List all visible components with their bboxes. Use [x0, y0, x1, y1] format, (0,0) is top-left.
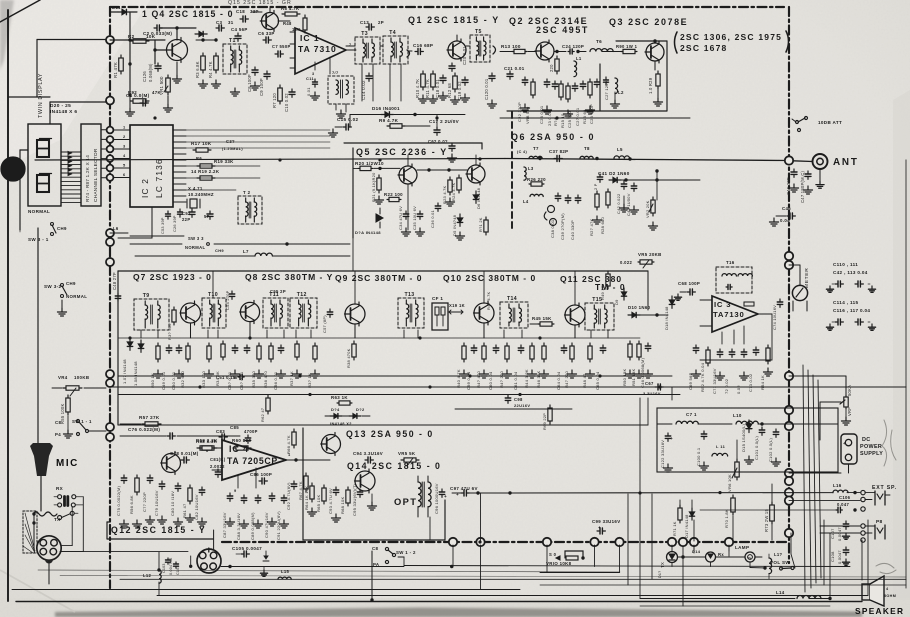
svg-text:C90 47U16V: C90 47U16V: [264, 512, 269, 538]
svg-text:C102 0.0(L): C102 0.0(L): [768, 437, 773, 462]
wire left border: [7, 10, 9, 601]
svg-text:Q13 2SA 950 - 0: Q13 2SA 950 - 0: [346, 429, 434, 439]
capacitor C98: [507, 395, 509, 398]
svg-text:C4 56P: C4 56P: [231, 27, 248, 32]
ground c105: [265, 551, 267, 556]
svg-text:R74 - R87 1.2K X 14: R74 - R87 1.2K X 14: [85, 155, 90, 202]
svg-text:R92: R92: [128, 90, 137, 95]
ground row under IF strip: [157, 370, 159, 374]
svg-text:C9 100P: C9 100P: [259, 78, 264, 96]
wire bottom run4: [157, 595, 868, 597]
wire q5 to strip: [352, 238, 354, 271]
capacitor C97: [461, 492, 464, 494]
svg-text:R21 (9.1K)R20: R21 (9.1K)R20: [371, 172, 376, 202]
svg-text:R13 100: R13 100: [501, 44, 521, 49]
svg-text:C13: C13: [360, 20, 369, 25]
wire socket up: [213, 530, 215, 549]
svg-text:C8: C8: [372, 546, 378, 551]
svg-text:C18 0.01: C18 0.01: [435, 79, 440, 98]
diode D10: [632, 312, 636, 317]
svg-text:EXT SP.: EXT SP.: [872, 485, 897, 491]
capacitor C68: [687, 291, 690, 293]
svg-text:R7 120: R7 120: [272, 93, 277, 108]
transistor Q15: [262, 13, 279, 30]
svg-text:2SC 495T: 2SC 495T: [536, 25, 589, 35]
wire right edge: [905, 160, 907, 588]
svg-text:R51 18K: R51 18K: [631, 368, 636, 386]
svg-text:3.3U16V: 3.3U16V: [643, 391, 661, 396]
svg-text:TWIN DISPLAY: TWIN DISPLAY: [38, 73, 44, 118]
node feed-through: [785, 469, 793, 477]
resistor X19: [449, 311, 463, 313]
svg-text:C53 39P: C53 39P: [161, 217, 165, 234]
svg-text:C120 0.01: C120 0.01: [484, 78, 489, 100]
wire right verticals: [803, 365, 805, 592]
svg-text:+: +: [444, 494, 447, 499]
wire q1 out: [466, 45, 470, 47]
wire bus1: [196, 39, 216, 41]
svg-text:R45 15K: R45 15K: [532, 316, 552, 321]
svg-text:R17 10K: R17 10K: [191, 141, 212, 146]
svg-text:R4 4.7K: R4 4.7K: [208, 61, 213, 78]
svg-text:C42 0.022: C42 0.022: [616, 194, 621, 214]
jack PA: [861, 524, 865, 528]
coil link T4: [407, 50, 410, 57]
svg-text:R10 4.7K: R10 4.7K: [415, 79, 420, 98]
node feed-through: [106, 423, 114, 431]
capacitor mic coupling: [63, 497, 66, 506]
ground row q2: [524, 104, 526, 108]
wire q3 col: [654, 41, 656, 43]
jack EXT SP: [861, 490, 865, 494]
svg-text:D10 1N60: D10 1N60: [628, 305, 651, 310]
svg-text:T6: T6: [596, 39, 602, 44]
transistor Q11: [565, 305, 585, 325]
wire socket right: [221, 566, 404, 568]
resistor R17b: [193, 149, 196, 151]
svg-text:72 0.02: 72 0.02: [724, 378, 729, 394]
svg-text:C24 120P: C24 120P: [562, 44, 584, 49]
svg-text:R23 4.7K: R23 4.7K: [442, 185, 447, 204]
node feed-through: [590, 538, 598, 546]
svg-text:R63 1K: R63 1K: [331, 395, 348, 400]
wire jack wires: [847, 492, 860, 494]
node feed-through: [785, 372, 793, 380]
svg-text:C37 82P: C37 82P: [549, 149, 568, 154]
svg-text:D?A IN4148: D?A IN4148: [355, 230, 381, 235]
channel selector box: [81, 124, 101, 206]
wire mid verticals: [452, 545, 454, 567]
svg-text:T4: T4: [389, 30, 396, 36]
ground g q3: [657, 89, 659, 98]
svg-text:C105 0.0047: C105 0.0047: [232, 546, 262, 551]
svg-text:R22 100: R22 100: [384, 192, 403, 197]
svg-text:T12: T12: [297, 292, 307, 298]
node feed-through: [690, 538, 698, 546]
svg-text:0.04: 0.04: [780, 218, 790, 223]
svg-text:R57 27K: R57 27K: [139, 415, 160, 420]
svg-text:C78 0.01(M): C78 0.01(M): [170, 451, 199, 456]
wire ic4 out: [296, 459, 330, 461]
svg-text:DC: DC: [862, 437, 871, 443]
wire bottom h extra: [640, 605, 830, 607]
svg-text:C89 0.068(M): C89 0.068(M): [250, 512, 255, 540]
svg-text:C77 220P: C77 220P: [142, 492, 147, 512]
svg-text:P8: P8: [876, 519, 883, 525]
wire agc bus5: [455, 408, 572, 410]
svg-text:R40 4.7K: R40 4.7K: [456, 369, 461, 388]
svg-text:C10 0.02: C10 0.02: [284, 93, 289, 112]
svg-text:R27 47K: R27 47K: [589, 218, 594, 236]
resistor R59b: [197, 447, 200, 449]
mic terminals: [58, 495, 62, 499]
svg-text:220: 220: [549, 64, 554, 72]
svg-text:POWER: POWER: [860, 444, 882, 450]
wire lamp down: [671, 563, 673, 567]
svg-text:Q10 2SC 380TM - 0: Q10 2SC 380TM - 0: [443, 273, 536, 283]
svg-text:TA 7310: TA 7310: [298, 44, 337, 54]
wire scan lines extra: [38, 570, 620, 572]
wire strip verticals: [647, 271, 649, 310]
svg-text:C126: C126: [142, 71, 147, 82]
svg-text:L10: L10: [733, 413, 742, 418]
svg-text:CH9: CH9: [215, 248, 224, 253]
svg-text:C98: C98: [514, 397, 523, 402]
svg-text:+: +: [670, 436, 673, 441]
transformer T4: [383, 36, 408, 64]
transformer T11: [263, 298, 288, 328]
svg-text:ANT: ANT: [833, 157, 859, 168]
svg-text:L1?: L1?: [774, 552, 783, 557]
transistor Q13: [322, 435, 341, 454]
pot VR5: [638, 261, 640, 263]
svg-text:C100 0.1: C100 0.1: [696, 447, 701, 466]
wire ic1 pins: [290, 31, 295, 33]
svg-text:RX: RX: [56, 486, 64, 491]
wire opt out: [452, 492, 462, 494]
svg-text:C18: C18: [236, 9, 245, 14]
node feed-through: [449, 538, 457, 546]
svg-text:D?2: D?2: [356, 407, 365, 412]
svg-text:R61 47: R61 47: [182, 503, 187, 518]
svg-text:C116 , 117 0.04: C116 , 117 0.04: [833, 308, 870, 313]
svg-text:C80 10 /16V: C80 10 /16V: [170, 491, 175, 516]
switch q6 sw: [548, 206, 555, 213]
wire sw12 left: [371, 551, 373, 601]
wire ic4 pins: [212, 447, 222, 449]
wire d16 rail: [349, 115, 351, 128]
svg-text:(C 4): (C 4): [517, 150, 527, 154]
svg-text:D18 IN4148: D18 IN4148: [664, 306, 669, 330]
svg-text:SPEAKER: SPEAKER: [855, 606, 904, 616]
svg-text:R8 4.7K: R8 4.7K: [281, 6, 300, 11]
q12 box corner: [106, 522, 108, 539]
ground g1: [129, 95, 131, 108]
wire r71 top: [679, 500, 681, 508]
wire display ribbon with diodes: [61, 151, 81, 153]
svg-text:C40 330P: C40 330P: [570, 220, 575, 240]
svg-text:10DB ATT: 10DB ATT: [818, 120, 842, 125]
wire IC2 bottom pin: [151, 207, 153, 238]
svg-text:Q14 2SC 1815 - 0: Q14 2SC 1815 - 0: [347, 461, 441, 471]
svg-text:C94 3.3U16V: C94 3.3U16V: [353, 451, 383, 456]
transformer T17: [328, 76, 354, 104]
svg-text:C36 0.01: C36 0.01: [430, 210, 435, 228]
wire t3 legs: [361, 64, 363, 101]
microphone MIC: [30, 446, 53, 476]
svg-text:X 4.71: X 4.71: [188, 186, 203, 191]
switch SW3-2: [61, 284, 64, 287]
svg-text:C41 D2 1N60: C41 D2 1N60: [598, 171, 630, 176]
op-amp IC1 TA7310: [295, 28, 346, 74]
svg-text:NORMAL: NORMAL: [66, 294, 87, 299]
svg-text:C43 1U50V: C43 1U50V: [626, 193, 631, 216]
svg-text:C11: C11: [306, 76, 315, 81]
wire IC2 left pins: [114, 129, 130, 131]
svg-text:T1: T1: [229, 38, 236, 44]
svg-text:T 2: T 2: [243, 190, 251, 195]
node feed-through: [785, 261, 793, 269]
svg-text:R20 1/2W10: R20 1/2W10: [355, 161, 384, 166]
capacitor C105: [241, 553, 244, 555]
svg-text:C38 0.01: C38 0.01: [550, 219, 555, 238]
svg-text:D5 IN4?48: D5 IN4?48: [452, 214, 457, 236]
7-segment digit lower: [37, 175, 49, 192]
svg-text:IC 1: IC 1: [300, 33, 320, 43]
svg-text:Q1 2SC 1815 - Y: Q1 2SC 1815 - Y: [408, 15, 500, 25]
transistor Q10: [474, 303, 494, 323]
wire ant line: [505, 159, 789, 161]
svg-text:0.068(M): 0.068(M): [148, 63, 153, 82]
ground row q1: [422, 95, 424, 99]
svg-text:D15 1S400(L): D15 1S400(L): [741, 423, 746, 452]
svg-text:R32 680: R32 680: [180, 370, 185, 388]
node feed-through: [476, 538, 484, 546]
svg-text:D16 IN4001: D16 IN4001: [372, 106, 400, 111]
wire mid rails: [214, 243, 287, 245]
svg-text:SW 3-2: SW 3-2: [44, 284, 61, 289]
wire dashed top boundary: [110, 6, 784, 8]
svg-text:R9 4.7K: R9 4.7K: [379, 118, 399, 123]
svg-text:TX: TX: [660, 562, 665, 568]
transformer T3: [355, 37, 380, 64]
wire q4 feed: [37, 39, 106, 41]
svg-text:R26 220: R26 220: [527, 177, 546, 182]
svg-text:VRF: VRF: [847, 407, 852, 416]
svg-text:R46 39K: R46 39K: [536, 370, 541, 388]
wire bottom run1: [120, 578, 906, 580]
pa box: [616, 40, 667, 42]
ground g4: [202, 80, 204, 84]
meter M: [792, 285, 807, 300]
wire dashed right boundary: [788, 7, 790, 563]
wire junction dots: [153, 116, 156, 119]
wire left bus: [37, 228, 39, 445]
svg-text:C122 33U16V: C122 33U16V: [660, 440, 665, 468]
svg-text:1.0 R29: 1.0 R29: [648, 77, 653, 94]
node feed-through: [107, 155, 114, 162]
svg-text:C3?: C3?: [226, 139, 235, 144]
svg-text:8OHM: 8OHM: [884, 594, 896, 598]
svg-text:2 P: 2 P: [593, 183, 598, 190]
ground socket: [263, 567, 265, 571]
node feed-through: [785, 422, 793, 430]
svg-text:C101 0.0(L): C101 0.0(L): [754, 435, 759, 460]
wire q6 verticals: [656, 171, 658, 200]
svg-text:Q5 2SC 2236 - Y: Q5 2SC 2236 - Y: [356, 147, 448, 157]
svg-text:R64 1K 10K: R64 1K 10K: [304, 486, 309, 510]
svg-text:C48 27P: C48 27P: [112, 272, 117, 290]
node feed-through: [106, 370, 114, 378]
ground q13: [311, 508, 313, 512]
svg-text:R48: R48: [283, 21, 292, 26]
wire l12 col: [158, 552, 160, 570]
node feed-through: [785, 406, 793, 414]
diode D6 arrow: [376, 214, 383, 222]
node ant feed: [785, 156, 793, 164]
svg-text:R67 4.7K: R67 4.7K: [298, 481, 303, 500]
ground row q12: [123, 520, 125, 524]
svg-text:R70 1.8K: R70 1.8K: [724, 509, 729, 528]
svg-text:R6: R6: [196, 156, 202, 161]
svg-text:VR8 500: VR8 500: [525, 106, 530, 124]
svg-text:L16: L16: [833, 483, 842, 488]
transistor Q14: [355, 471, 375, 491]
node feed-through: [543, 538, 551, 546]
svg-text:C74 10U16V: C74 10U16V: [772, 305, 777, 330]
svg-text:L5: L5: [617, 147, 623, 152]
svg-text:C93 4.7U 6V: C93 4.7U 6V: [328, 488, 333, 514]
svg-text:C21 0.01: C21 0.01: [504, 66, 525, 71]
svg-text:R47 220: R47 220: [564, 370, 569, 388]
svg-text:R24 4.7K: R24 4.7K: [451, 182, 456, 201]
svg-text:Q7 2SC 1923 - 0: Q7 2SC 1923 - 0: [133, 272, 212, 282]
svg-text:R4? 4.7K: R4? 4.7K: [486, 291, 491, 310]
svg-text:0.02: 0.02: [736, 385, 741, 394]
svg-text:C19 0.02: C19 0.02: [457, 81, 462, 100]
wire if bottom: [118, 424, 648, 426]
svg-text:TX: TX: [54, 517, 61, 522]
wire dc feed: [789, 472, 841, 474]
led RX: [706, 552, 716, 562]
node feed-through: [107, 136, 114, 143]
svg-text:R36 470: R36 470: [263, 370, 268, 388]
svg-text:22P: 22P: [182, 217, 190, 222]
wire Q4 top rail: [110, 11, 118, 13]
dc connector: [841, 434, 857, 464]
wire emitters to bus: [190, 323, 192, 338]
svg-text:R15 10: R15 10: [560, 113, 565, 128]
svg-text:31: 31: [228, 20, 234, 25]
svg-text:C87 33U16V: C87 33U16V: [222, 512, 227, 538]
wire dashed left boundary: [109, 7, 111, 588]
power filter box: [657, 408, 838, 472]
svg-text:14 R19 2.2K: 14 R19 2.2K: [191, 169, 220, 174]
svg-text:L15: L15: [281, 569, 290, 574]
svg-text:R56 6.8K: R56 6.8K: [129, 495, 134, 514]
svg-text:C16 68P: C16 68P: [413, 43, 433, 48]
ground g3: [176, 62, 178, 75]
diode D11: [122, 9, 126, 14]
svg-text:C79 10U16V: C79 10U16V: [154, 490, 159, 516]
mic cable shield: [23, 511, 37, 553]
node feed-through: [679, 538, 687, 546]
svg-text:C103: C103: [162, 563, 166, 573]
modulator box: [303, 428, 445, 540]
if strip top border: [118, 270, 648, 272]
svg-text:R68 10K: R68 10K: [340, 496, 345, 514]
svg-text:R4? 470: R4? 470: [476, 370, 481, 388]
wire vr6 col: [736, 440, 738, 459]
switch SW3-1: [51, 223, 54, 226]
wire mic stem: [40, 476, 42, 511]
svg-text:VR5 5K: VR5 5K: [398, 451, 416, 456]
svg-text:L1: L1: [576, 56, 582, 61]
svg-text:L7: L7: [243, 249, 249, 254]
svg-text:C88 3.3U16V: C88 3.3U16V: [236, 513, 241, 540]
svg-text:R3? 1K: R3? 1K: [307, 373, 312, 388]
wire lamp rail: [678, 556, 705, 558]
svg-text:C71 33U16V: C71 33U16V: [712, 368, 717, 394]
transistor Q8: [240, 302, 259, 321]
svg-text:R44 3.9K: R44 3.9K: [524, 369, 529, 388]
transformer T13: [398, 298, 424, 328]
svg-text:0.0047: 0.0047: [837, 550, 842, 564]
svg-text:L14: L14: [776, 590, 785, 595]
wire r73: [771, 484, 773, 505]
svg-text:R73 2W 15: R73 2W 15: [764, 509, 769, 532]
svg-text:0.01: 0.01: [306, 87, 311, 96]
node feed-through: [785, 529, 793, 537]
transistor Q1: [448, 41, 466, 59]
node feed-through: [107, 127, 114, 134]
svg-text:R50 15K: R50 15K: [622, 368, 627, 386]
svg-text:NORMAL: NORMAL: [185, 245, 205, 250]
q5 box: [344, 142, 482, 144]
resistor R13: [512, 51, 514, 53]
svg-text:2SC 1306, 2SC 1975: 2SC 1306, 2SC 1975: [680, 32, 782, 42]
transformer T14: [500, 302, 528, 328]
svg-text:(1.25MAL): (1.25MAL): [222, 147, 243, 151]
svg-text:LC 7136: LC 7136: [154, 158, 164, 198]
node punch hole: [1, 157, 25, 181]
ground g5: [314, 92, 316, 96]
svg-text:C95 33U(6V)(T): C95 33U(6V)(T): [352, 483, 357, 516]
svg-text:OPT: OPT: [394, 497, 417, 507]
svg-text:R28 680: R28 680: [600, 216, 605, 234]
wire bottom verticals: [861, 540, 863, 580]
svg-text:D1?: D1?: [658, 571, 662, 578]
svg-text:R50 1K: R50 1K: [150, 373, 155, 388]
svg-text:C42 , 113 0.04: C42 , 113 0.04: [833, 270, 868, 275]
svg-text:C23 0.01: C23 0.01: [539, 105, 544, 124]
capacitor C94: [365, 459, 368, 461]
antenna ANT: [813, 154, 828, 169]
wire rdash col: [788, 537, 790, 554]
svg-text:R4? 220: R4? 220: [499, 370, 504, 388]
svg-text:4700P: 4700P: [244, 429, 258, 434]
node feed-through: [107, 165, 114, 172]
wire bundle2: [186, 165, 260, 167]
svg-text:C96 1000U16V: C96 1000U16V: [434, 483, 439, 514]
svg-text:R?1 2K: R?1 2K: [478, 217, 483, 232]
svg-text:S 0: S 0: [549, 552, 557, 557]
svg-text:7/7: 7/7: [332, 70, 339, 75]
wire mic plug leads: [61, 545, 72, 547]
svg-text:LAMP: LAMP: [735, 545, 749, 550]
svg-text:R90 1W 1: R90 1W 1: [616, 44, 638, 49]
node feed-through: [785, 477, 793, 485]
